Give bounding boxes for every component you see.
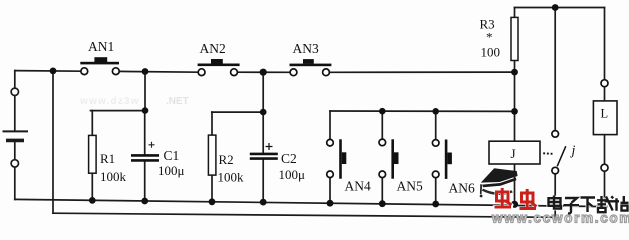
node dot AN5 top xyxy=(379,108,386,115)
relay contact j xyxy=(543,131,575,174)
node dot C2 top xyxy=(260,109,267,116)
resistor R3 xyxy=(480,17,519,61)
pushbutton AN2 xyxy=(198,41,240,76)
wire top bus segment 3 (AN2 to AN3) xyxy=(238,71,290,73)
wire relay coil leads xyxy=(514,111,516,141)
node dot bus1 relay coil xyxy=(511,201,518,208)
node dot bus1 AN4 xyxy=(327,200,334,207)
node dot bus1 AN5 xyxy=(379,200,386,207)
pushbutton AN6 xyxy=(432,140,475,196)
wire AN6 column xyxy=(435,111,437,139)
svg-text:100μ: 100μ xyxy=(279,167,306,182)
wire relay contact column xyxy=(554,8,556,131)
svg-text:R1: R1 xyxy=(100,151,115,166)
wire AN2 node to C2 top xyxy=(262,72,264,112)
svg-text:AN3: AN3 xyxy=(293,41,319,56)
wire top bus segment 2 (AN1 to AN2) xyxy=(119,70,198,73)
node dot upper bus x=555 xyxy=(552,4,559,11)
svg-text:100k: 100k xyxy=(218,170,245,185)
svg-text:*: * xyxy=(486,30,493,45)
svg-text:J: J xyxy=(511,146,516,161)
wire AN5 column xyxy=(381,111,383,139)
node dot R3 bottom xyxy=(511,69,518,76)
watermark logo cap (decorative) xyxy=(480,168,518,197)
svg-text:C2: C2 xyxy=(281,151,297,166)
wire AN4-AN6 top link xyxy=(330,110,515,112)
wire upper-right bus (R3 top to lamp top) xyxy=(515,7,605,9)
wire R1 leads xyxy=(91,111,93,136)
pushbutton AN1 xyxy=(80,39,119,75)
wire top bus segment 1 (battery+ to AN1) xyxy=(15,70,81,73)
node dot top bus x=53 xyxy=(50,68,57,75)
wire bottom bus 2 (battery+ rail) xyxy=(53,213,555,217)
resistor R2 xyxy=(208,135,244,184)
node dot bus1 C1 xyxy=(141,198,148,205)
wire battery column xyxy=(14,71,16,89)
svg-text:www.dz3w: www.dz3w xyxy=(79,96,140,107)
wire R2/C2 top link xyxy=(212,111,263,113)
node dot bus1 AN6 xyxy=(432,201,439,208)
node dot top bus x=145 xyxy=(142,68,149,75)
resistor R1 xyxy=(89,135,127,184)
pushbutton AN5 xyxy=(379,139,423,193)
wire R1/C1 top link xyxy=(91,110,146,112)
svg-text:AN5: AN5 xyxy=(397,179,423,194)
wire lamp column xyxy=(604,8,606,80)
battery terminal circles xyxy=(11,88,18,167)
svg-text:100: 100 xyxy=(481,45,501,60)
svg-text:C1: C1 xyxy=(164,148,180,163)
wire C1 leads xyxy=(144,111,146,154)
wire hold-circuit column x=53 xyxy=(52,71,54,213)
svg-text:AN6: AN6 xyxy=(449,181,475,196)
wire AN1 node to C1 top xyxy=(144,72,146,111)
relay coil J xyxy=(489,141,540,164)
svg-text:AN2: AN2 xyxy=(200,41,226,56)
watermark red bug characters (decorative) xyxy=(495,188,537,209)
capacitor C2 xyxy=(250,143,305,182)
wire top bus segment 4 (AN3 to R3 column) xyxy=(330,71,515,73)
wire R3 column xyxy=(514,8,516,18)
wire R2 leads xyxy=(211,112,213,135)
svg-text:www.ccworm.com: www.ccworm.com xyxy=(491,211,629,226)
wire bottom bus 1 (battery- rail) xyxy=(15,199,607,206)
wire C2 leads xyxy=(262,112,264,153)
watermark site name strokes (decorative) xyxy=(549,196,629,214)
capacitor C1 xyxy=(131,142,185,178)
pushbutton AN4 xyxy=(327,139,371,193)
node dot top bus x=263 xyxy=(260,69,267,76)
svg-text:100k: 100k xyxy=(100,169,127,184)
node dot C1 top xyxy=(142,107,149,114)
faint site watermark (decorative) xyxy=(79,96,189,107)
node dot AN6 top xyxy=(432,108,439,115)
svg-text:AN4: AN4 xyxy=(345,179,371,194)
wire AN4 column xyxy=(329,111,331,139)
svg-text:.NET: .NET xyxy=(166,96,189,107)
node dot bus1 R1 xyxy=(89,197,96,204)
svg-text:L: L xyxy=(601,107,609,121)
node dot bus1 C2 xyxy=(260,199,267,206)
node dot bus1 R2 xyxy=(209,198,216,205)
svg-text:R2: R2 xyxy=(219,152,234,167)
svg-text:AN1: AN1 xyxy=(88,39,114,54)
node dot AN-line x=514.5 xyxy=(511,108,518,115)
battery GB plates xyxy=(3,131,29,140)
lamp L xyxy=(593,80,617,172)
svg-text:100μ: 100μ xyxy=(158,163,185,178)
pushbutton AN3 xyxy=(290,41,332,76)
